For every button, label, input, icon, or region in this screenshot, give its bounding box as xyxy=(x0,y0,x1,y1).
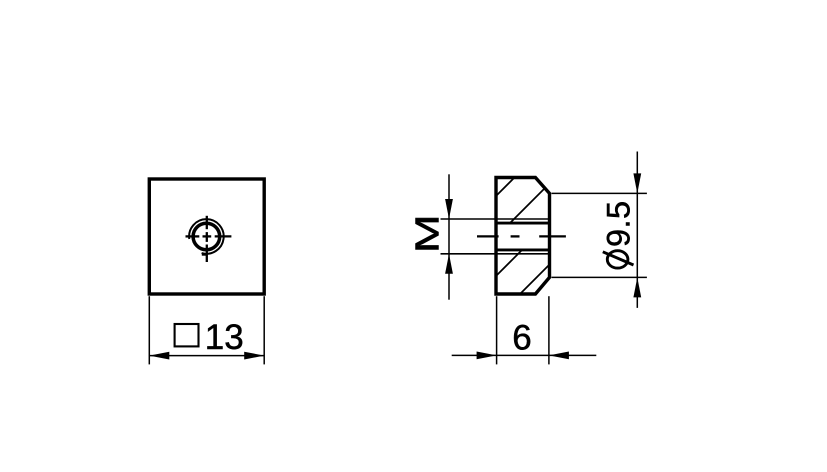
extension line right of dim 13 xyxy=(263,296,265,364)
dimension line 6 xyxy=(452,354,597,356)
thread arc end tick xyxy=(202,253,207,256)
thread minor line top (thick) xyxy=(496,222,550,225)
arrowhead right of dim 6 xyxy=(549,352,569,360)
arrowhead left of dim 6 xyxy=(477,352,497,360)
arrowhead upper of dim 9.5 xyxy=(633,173,641,193)
arrowhead upper of dim M xyxy=(445,199,453,219)
vertical centerline of hole xyxy=(206,216,208,262)
dimension line M xyxy=(448,174,450,299)
thread major line bottom (thin) + M extension xyxy=(441,253,550,255)
extension line lower of dim 9.5 xyxy=(552,276,647,278)
arrowhead right of dim 13 xyxy=(244,352,264,360)
thread major arc (thin 3/4 circle) xyxy=(189,219,224,254)
hatch line B1 xyxy=(496,250,522,276)
square symbol of dim 13 xyxy=(175,324,199,346)
front view square outline xyxy=(149,179,264,294)
extension line right of dim 6 xyxy=(548,296,550,364)
diameter symbol of dim 9.5 xyxy=(603,251,634,268)
section centerline dashes xyxy=(477,235,566,237)
svg-text:M: M xyxy=(408,214,445,253)
arrowhead lower of dim 9.5 xyxy=(633,277,641,297)
thread major line top (thin) + M extension xyxy=(441,218,550,220)
dimension line 9.5 xyxy=(636,152,638,308)
svg-text:13: 13 xyxy=(205,318,244,357)
thread minor line bottom (thick) xyxy=(496,248,550,251)
section view outline xyxy=(496,178,550,295)
svg-text:6: 6 xyxy=(512,319,531,358)
hatch line T1 xyxy=(496,178,515,197)
hatch line B2 xyxy=(520,265,550,295)
dimension text M xyxy=(408,214,445,253)
thread minor circle (thick) xyxy=(193,223,220,250)
arrowhead lower of dim M xyxy=(445,254,453,274)
extension line upper of dim 9.5 xyxy=(552,192,647,194)
hatch line T2 xyxy=(510,188,546,224)
arrowhead left of dim 13 xyxy=(149,352,169,360)
extension line left of dim 13 xyxy=(148,296,150,364)
svg-text:9.5: 9.5 xyxy=(601,200,637,247)
horizontal centerline of hole xyxy=(186,235,232,237)
extension line left of dim 6 xyxy=(496,296,498,364)
dimension line 13 xyxy=(149,355,264,357)
